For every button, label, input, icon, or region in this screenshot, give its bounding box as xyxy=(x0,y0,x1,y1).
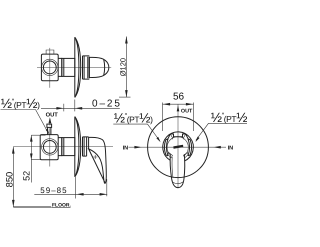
left IN arrow xyxy=(134,146,141,149)
handle collar xyxy=(83,137,89,156)
cross mark on lever xyxy=(93,155,97,159)
dimension line xyxy=(163,103,194,105)
right IN arrow xyxy=(213,146,220,149)
horizontal centerline xyxy=(129,146,227,148)
lever handle inner edge xyxy=(89,149,106,183)
right arrow xyxy=(186,103,193,106)
left ear bracket xyxy=(164,139,168,156)
OUT arrow on centerline xyxy=(177,106,180,112)
right ear bracket xyxy=(188,139,192,156)
right extension line xyxy=(74,100,76,112)
svg-text:0–25: 0–25 xyxy=(92,99,122,110)
52 dimension line xyxy=(30,135,32,182)
left extension line xyxy=(63,104,65,112)
svg-text:IN: IN xyxy=(228,145,234,151)
valve body V1 xyxy=(41,54,58,81)
connector sleeve xyxy=(62,58,75,76)
vertical centerline xyxy=(177,104,179,188)
svg-text:59–85: 59–85 xyxy=(40,186,67,195)
yoke inner lines xyxy=(170,134,185,139)
center stem cap (dark) xyxy=(173,145,183,149)
floor line xyxy=(13,206,51,208)
connector sleeve xyxy=(62,138,75,156)
850 dimension line xyxy=(12,147,14,207)
59-85 wall extension xyxy=(74,177,76,199)
Ø120 bottom arrow xyxy=(125,90,128,97)
59-85 right arrow xyxy=(100,193,107,196)
svg-text:OUT: OUT xyxy=(46,111,59,118)
left extension line xyxy=(162,103,164,132)
label3 leader xyxy=(196,123,209,140)
horizontal centerline (also 850 top reference) xyxy=(13,146,113,148)
side port inner circle xyxy=(43,141,56,154)
52 top arrow xyxy=(30,135,33,141)
59-85 right extension xyxy=(106,179,108,196)
outlet neck xyxy=(48,127,51,134)
valve body V2 xyxy=(40,135,58,160)
top yoke bracket xyxy=(167,134,189,140)
wall line / flange back xyxy=(74,37,76,97)
escutcheon circle xyxy=(148,117,209,178)
floor text underline xyxy=(51,206,70,208)
svg-text:52: 52 xyxy=(21,171,31,181)
left arrow (outside, pointing right) xyxy=(56,107,63,110)
vertical centerline xyxy=(49,128,51,166)
59-85 left arrow xyxy=(76,193,83,196)
label2 leader xyxy=(148,124,160,140)
top stub xyxy=(46,50,54,54)
52 top tick xyxy=(31,134,45,136)
side port inner circle xyxy=(43,61,56,74)
right arrow (outside, pointing left) xyxy=(75,107,82,110)
vertical centerline through valve body xyxy=(49,48,51,88)
grip front arc xyxy=(172,182,183,184)
label1 underline xyxy=(1,109,36,111)
neck inner contour xyxy=(171,157,174,178)
outlet cap xyxy=(47,124,52,127)
handle neck and grip front view xyxy=(170,154,185,187)
side port outer circle xyxy=(42,59,58,75)
cartridge inner ring xyxy=(167,137,188,156)
handle collar xyxy=(83,56,90,79)
escutcheon flange side profile xyxy=(75,37,81,97)
lower right tab xyxy=(184,152,189,157)
dimension line xyxy=(41,107,120,109)
collar between body and connector xyxy=(58,58,62,76)
horizontal centerline xyxy=(37,66,111,68)
right extension line xyxy=(193,103,195,132)
Ø120 dimension line xyxy=(125,37,127,98)
lever handle side profile outer edge xyxy=(89,137,107,183)
svg-text:OUT: OUT xyxy=(181,108,193,114)
cartridge outer circle xyxy=(163,132,194,161)
connector inner ring line xyxy=(63,58,65,76)
svg-text:Ø120: Ø120 xyxy=(118,58,127,76)
OUT flow arrow xyxy=(49,120,51,126)
svg-text:IN: IN xyxy=(123,145,129,151)
label2 leader arrow xyxy=(156,137,160,142)
Ø120 top arrow xyxy=(125,36,128,43)
label3 underline xyxy=(209,122,248,124)
svg-text:FLOOR.: FLOOR. xyxy=(52,203,71,209)
collar between body and connector xyxy=(58,138,62,156)
connector inner ring line xyxy=(63,138,65,156)
label2 underline xyxy=(113,123,147,125)
Ø120 bottom tick xyxy=(119,96,131,98)
lower left tab xyxy=(168,152,173,157)
52 bottom tick xyxy=(31,159,40,161)
svg-text:850: 850 xyxy=(3,172,14,188)
59-85 dimension line xyxy=(34,193,107,195)
850 bottom arrow xyxy=(12,200,15,207)
escutcheon flange side profile xyxy=(75,117,81,177)
label3 leader arrow xyxy=(196,137,200,142)
label1 leader arrow xyxy=(46,129,50,135)
850 top arrow xyxy=(12,147,15,154)
left arrow xyxy=(163,103,170,106)
svg-text:56: 56 xyxy=(173,92,185,103)
side port outer circle xyxy=(42,139,58,155)
knob tip arc xyxy=(103,59,106,75)
wall line / flange back xyxy=(74,117,76,177)
label1 leader xyxy=(36,110,49,133)
knob dome xyxy=(89,57,108,77)
52 bottom arrow xyxy=(30,154,33,160)
